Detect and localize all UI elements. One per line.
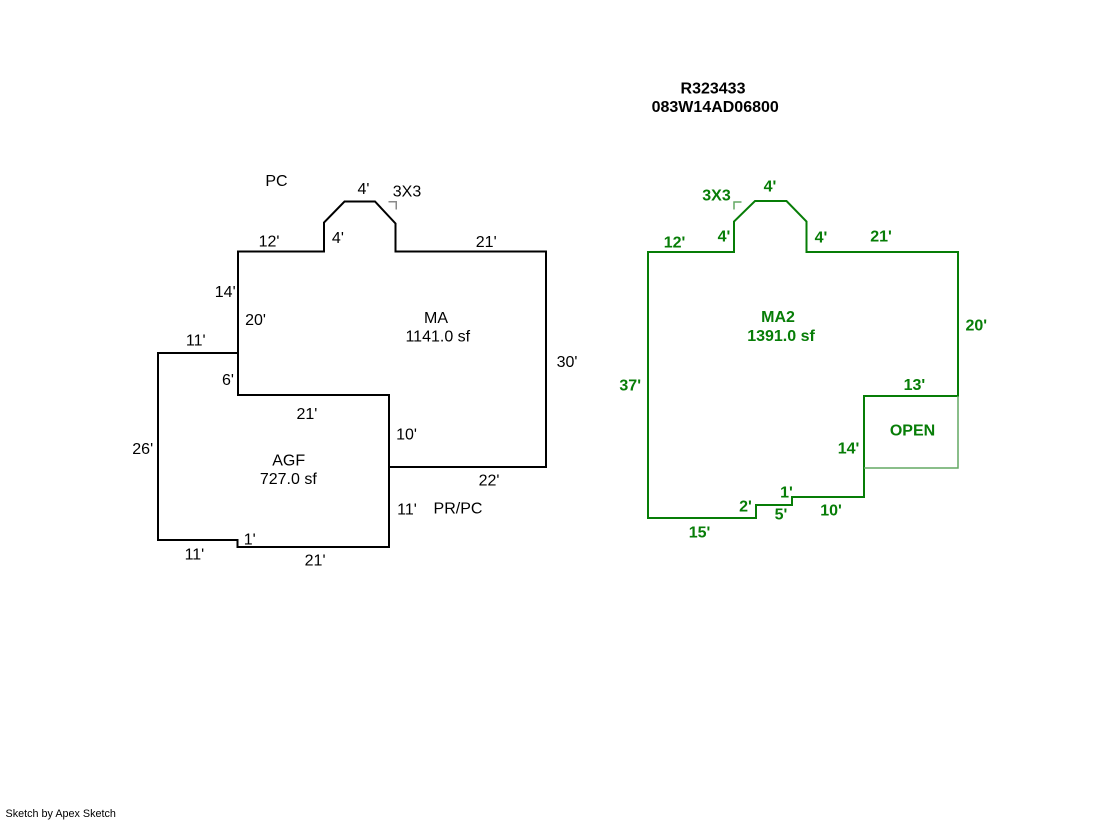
svg-text:14': 14' (838, 440, 860, 457)
svg-text:1': 1' (780, 485, 793, 502)
svg-text:OPEN: OPEN (890, 423, 935, 440)
svg-text:3X3: 3X3 (393, 183, 422, 200)
MA2 area outline (green sketch) (648, 201, 958, 518)
svg-text:MA: MA (424, 310, 448, 327)
svg-text:21': 21' (305, 553, 326, 570)
svg-text:4': 4' (718, 228, 731, 245)
svg-text:10': 10' (820, 502, 842, 519)
svg-text:1': 1' (244, 531, 256, 548)
svg-text:22': 22' (479, 473, 500, 490)
svg-text:30': 30' (557, 354, 578, 371)
3X3 corner marker (green sketch) (734, 202, 742, 210)
svg-text:20': 20' (245, 312, 266, 329)
svg-text:11': 11' (186, 333, 206, 350)
svg-text:4': 4' (764, 178, 777, 195)
svg-text:2': 2' (739, 498, 752, 515)
svg-text:PR/PC: PR/PC (434, 501, 483, 518)
svg-text:14': 14' (215, 284, 236, 301)
svg-text:37': 37' (619, 378, 641, 395)
svg-text:11': 11' (397, 502, 417, 519)
svg-text:4': 4' (332, 230, 344, 247)
svg-text:1391.0 sf: 1391.0 sf (747, 328, 815, 345)
svg-text:Sketch by Apex Sketch: Sketch by Apex Sketch (6, 808, 116, 820)
svg-text:12': 12' (259, 234, 280, 251)
svg-text:12': 12' (664, 234, 686, 251)
svg-text:727.0 sf: 727.0 sf (260, 471, 317, 488)
svg-text:PC: PC (265, 173, 287, 190)
svg-text:3X3: 3X3 (702, 187, 731, 204)
svg-text:21': 21' (870, 228, 892, 245)
svg-text:4': 4' (358, 181, 370, 198)
svg-text:11': 11' (185, 547, 205, 564)
svg-text:26': 26' (132, 441, 153, 458)
svg-text:15': 15' (689, 524, 711, 541)
svg-text:AGF: AGF (272, 452, 305, 469)
OPEN area light edges (green sketch) (864, 396, 958, 468)
MA area outline (black sketch, main area with bay bump) (238, 202, 546, 468)
svg-text:10': 10' (396, 426, 417, 443)
svg-text:13': 13' (904, 377, 926, 394)
svg-text:5': 5' (775, 506, 788, 523)
svg-text:21': 21' (296, 406, 317, 423)
3X3 corner marker (black sketch) (389, 202, 397, 210)
svg-text:083W14AD06800: 083W14AD06800 (652, 99, 779, 116)
svg-text:6': 6' (222, 372, 234, 389)
svg-text:21': 21' (476, 234, 497, 251)
svg-text:R323433: R323433 (681, 81, 746, 98)
svg-text:4': 4' (815, 229, 828, 246)
svg-text:MA2: MA2 (761, 309, 795, 326)
svg-text:20': 20' (965, 317, 987, 334)
AGF area outline (black sketch, attached garage/lower area) (158, 353, 389, 547)
svg-text:1141.0 sf: 1141.0 sf (405, 328, 470, 345)
